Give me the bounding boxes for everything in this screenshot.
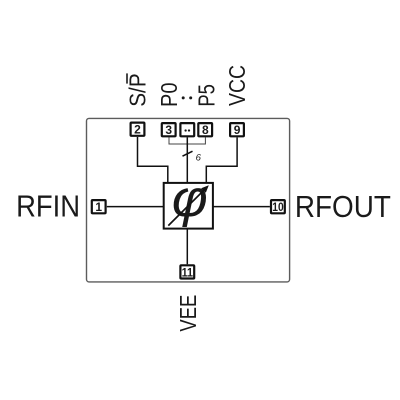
svg-text:10: 10 [272, 200, 284, 214]
ellipsis dots between P0 and P5 [182, 96, 193, 99]
wire pin9 to phase shifter [206, 137, 237, 183]
svg-text:3: 3 [165, 123, 172, 137]
svg-text:RFOUT: RFOUT [295, 189, 391, 224]
wire pin2 to phase shifter [138, 137, 168, 183]
pin 2 [131, 123, 145, 137]
IC body outline [87, 118, 290, 282]
svg-text:P0: P0 [156, 83, 182, 108]
svg-text:8: 8 [202, 123, 209, 137]
svg-text:2: 2 [134, 123, 141, 137]
pin 3 [162, 123, 176, 137]
phase adjust arrow [168, 185, 209, 225]
wire pin1 to phase shifter [107, 206, 164, 208]
svg-text:11: 11 [182, 265, 194, 279]
phase shifter box U1 [164, 183, 213, 229]
label S/P-bar [124, 73, 150, 107]
wire phase shifter to pin10 [213, 206, 270, 208]
pin 1 [92, 200, 106, 214]
svg-text:VCC: VCC [224, 65, 250, 106]
svg-text:1: 1 [95, 200, 102, 214]
svg-text:9: 9 [234, 123, 241, 137]
svg-text:6: 6 [196, 153, 202, 164]
bus bracket pins 3..8 [169, 137, 205, 144]
svg-text:P5: P5 [194, 84, 220, 107]
pin 9 [230, 123, 244, 137]
svg-text:S/P: S/P [124, 73, 150, 107]
wire phase shifter to pin11 [186, 229, 188, 265]
svg-text:VEE: VEE [175, 295, 201, 332]
svg-text:RFIN: RFIN [16, 189, 80, 224]
pin 8 [198, 123, 212, 137]
pin 11 [180, 265, 194, 279]
bus wire to phase shifter [186, 137, 188, 183]
svg-text:φ: φ [172, 171, 208, 228]
bus width slash [183, 151, 193, 156]
pin dots square [180, 123, 194, 136]
pin 10 [271, 200, 285, 214]
